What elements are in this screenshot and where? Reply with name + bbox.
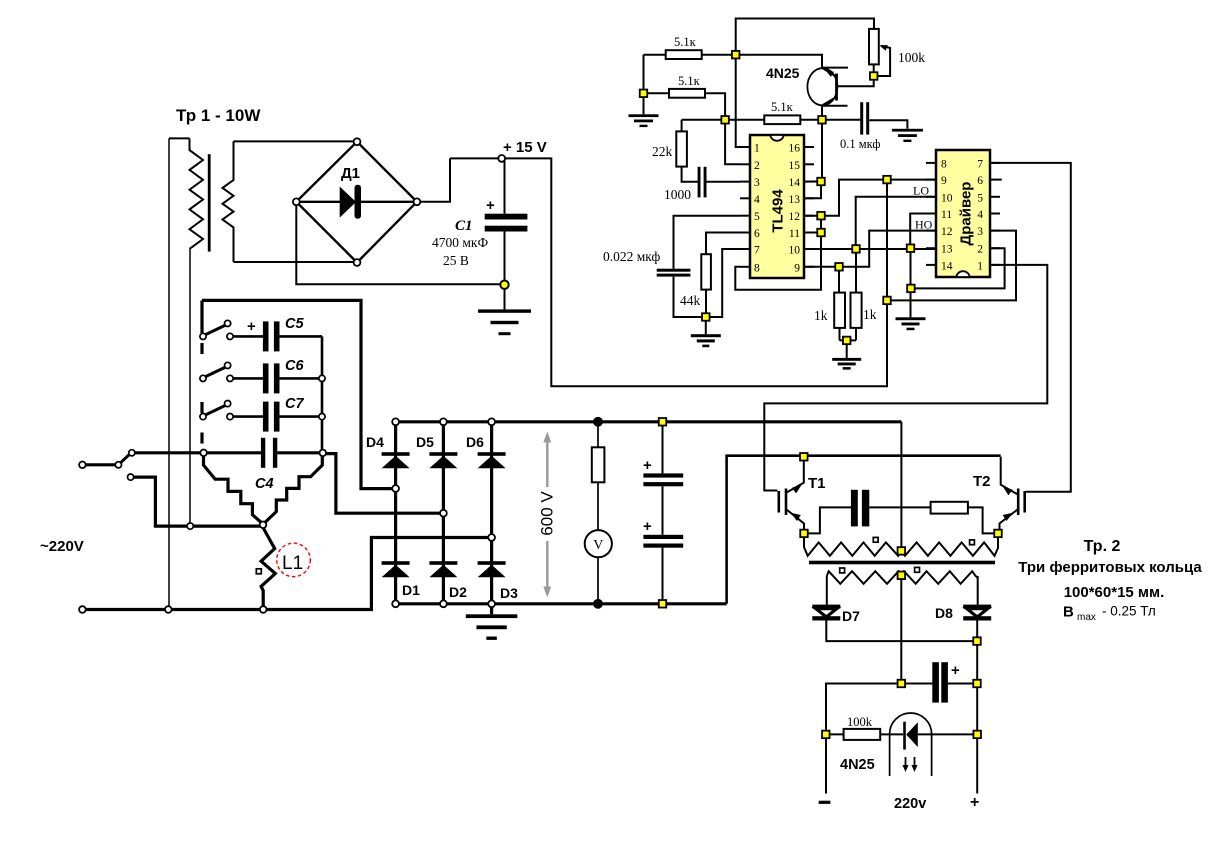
- svg-text:25 В: 25 В: [443, 253, 469, 268]
- svg-text:7: 7: [754, 245, 760, 257]
- svg-text:100*60*15 мм.: 100*60*15 мм.: [1064, 584, 1165, 601]
- svg-text:4N25: 4N25: [840, 757, 875, 773]
- svg-text:LO: LO: [913, 184, 929, 198]
- svg-text:10: 10: [789, 245, 801, 257]
- svg-text:100k: 100k: [898, 50, 925, 65]
- svg-text:C4: C4: [255, 476, 274, 492]
- svg-text:13: 13: [789, 194, 801, 206]
- svg-text:6: 6: [977, 175, 983, 187]
- svg-text:D8: D8: [935, 605, 953, 621]
- svg-text:Тр 1 - 10W: Тр 1 - 10W: [176, 106, 261, 125]
- svg-text:1k: 1k: [863, 307, 877, 322]
- svg-text:1000: 1000: [664, 187, 691, 202]
- svg-text:14: 14: [789, 177, 801, 189]
- svg-text:V: V: [593, 538, 603, 553]
- svg-text:0.1 мкф: 0.1 мкф: [840, 137, 881, 151]
- svg-text:11: 11: [941, 209, 952, 221]
- svg-text:10: 10: [941, 192, 953, 204]
- svg-text:220v: 220v: [894, 796, 926, 812]
- svg-text:5: 5: [977, 192, 983, 204]
- svg-text:+: +: [970, 794, 979, 811]
- svg-text:1: 1: [754, 143, 760, 155]
- svg-text:B: B: [1063, 604, 1074, 621]
- svg-text:C1: C1: [455, 218, 473, 234]
- svg-text:4N25: 4N25: [766, 65, 800, 81]
- svg-text:14: 14: [941, 260, 953, 272]
- svg-text:100k: 100k: [847, 715, 873, 729]
- svg-text:5: 5: [754, 211, 760, 223]
- svg-text:+: +: [951, 662, 960, 679]
- svg-text:12: 12: [941, 226, 953, 238]
- svg-text:4: 4: [754, 194, 760, 206]
- svg-text:4700 мкФ: 4700 мкФ: [432, 235, 488, 250]
- svg-text:D1: D1: [402, 582, 420, 598]
- svg-text:5.1к: 5.1к: [771, 100, 794, 114]
- svg-text:9: 9: [941, 175, 947, 187]
- svg-text:T2: T2: [973, 473, 991, 490]
- svg-text:6: 6: [754, 228, 760, 240]
- svg-text:5.1к: 5.1к: [674, 35, 697, 49]
- svg-text:3: 3: [977, 226, 983, 238]
- svg-text:C5: C5: [285, 316, 304, 332]
- svg-text:D2: D2: [449, 584, 467, 600]
- svg-text:TL494: TL494: [770, 189, 787, 233]
- svg-text:2: 2: [754, 160, 760, 172]
- svg-text:max: max: [1077, 612, 1096, 623]
- svg-text:8: 8: [754, 262, 760, 274]
- svg-text:Тр. 2: Тр. 2: [1084, 538, 1121, 555]
- svg-text:8: 8: [941, 158, 947, 170]
- svg-text:+: +: [486, 197, 495, 214]
- svg-text:9: 9: [794, 262, 800, 274]
- svg-text:Драйвер: Драйвер: [958, 182, 975, 246]
- svg-text:1: 1: [977, 260, 983, 272]
- svg-text:D7: D7: [842, 608, 860, 624]
- svg-text:Три ферритовых кольца: Три ферритовых кольца: [1018, 559, 1202, 576]
- svg-text:11: 11: [789, 228, 800, 240]
- svg-text:600 V: 600 V: [538, 491, 557, 536]
- svg-text:2: 2: [977, 244, 983, 256]
- svg-text:22k: 22k: [652, 144, 673, 159]
- svg-text:+: +: [643, 518, 652, 535]
- svg-text:3: 3: [754, 177, 760, 189]
- svg-text:16: 16: [789, 143, 801, 155]
- svg-text:~220V: ~220V: [40, 538, 84, 555]
- svg-text:+: +: [247, 318, 256, 335]
- svg-text:4: 4: [977, 209, 983, 221]
- svg-text:L1: L1: [282, 553, 303, 574]
- svg-text:44k: 44k: [680, 293, 701, 308]
- svg-text:5.1к: 5.1к: [678, 74, 701, 88]
- svg-text:12: 12: [789, 211, 801, 223]
- svg-text:HO: HO: [915, 218, 933, 232]
- svg-text:D3: D3: [500, 585, 518, 601]
- svg-text:D6: D6: [466, 434, 484, 450]
- svg-text:15: 15: [789, 160, 801, 172]
- svg-text:+ 15 V: + 15 V: [503, 139, 547, 156]
- svg-text:- 0.25 Тл: - 0.25 Тл: [1102, 604, 1156, 619]
- svg-text:T1: T1: [808, 475, 826, 492]
- svg-text:1k: 1k: [814, 308, 828, 323]
- svg-text:D4: D4: [366, 434, 384, 450]
- svg-text:C6: C6: [285, 358, 304, 374]
- svg-text:D5: D5: [416, 434, 434, 450]
- svg-text:7: 7: [977, 158, 983, 170]
- svg-text:13: 13: [941, 244, 953, 256]
- svg-text:C7: C7: [285, 396, 304, 412]
- svg-text:Д1: Д1: [341, 165, 360, 182]
- svg-text:+: +: [643, 457, 652, 474]
- svg-text:0.022 мкф: 0.022 мкф: [603, 249, 661, 264]
